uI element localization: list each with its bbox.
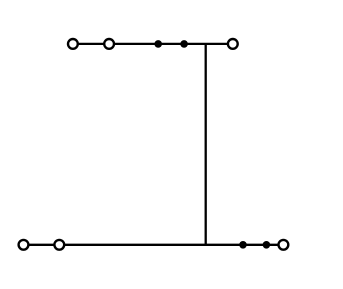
wire: top rail segment between terminals 1 and 2 bbox=[79, 43, 105, 45]
terminal: top rail second open contact bbox=[104, 39, 114, 49]
terminal: bottom rail left open contact bbox=[19, 240, 29, 250]
terminal: top rail left open contact bbox=[68, 39, 78, 49]
junction: bottom rail solder dot 2 bbox=[263, 241, 271, 249]
junction: bottom rail solder dot 1 bbox=[239, 241, 247, 249]
terminal: top rail right open contact bbox=[228, 39, 238, 49]
junction: top rail solder dot 2 bbox=[180, 40, 188, 48]
wire: vertical bridge between top and bottom rails bbox=[205, 44, 207, 245]
terminal: bottom rail second open contact bbox=[54, 240, 64, 250]
wire: bottom rail segment from terminal 2 to right terminal bbox=[65, 244, 279, 246]
junction: top rail solder dot 1 bbox=[154, 40, 162, 48]
wire: bottom rail segment between terminals 1 and 2 bbox=[29, 244, 54, 246]
terminal: bottom rail right open contact bbox=[279, 240, 289, 250]
wire: top rail segment from terminal 2 to right terminal bbox=[114, 43, 227, 45]
